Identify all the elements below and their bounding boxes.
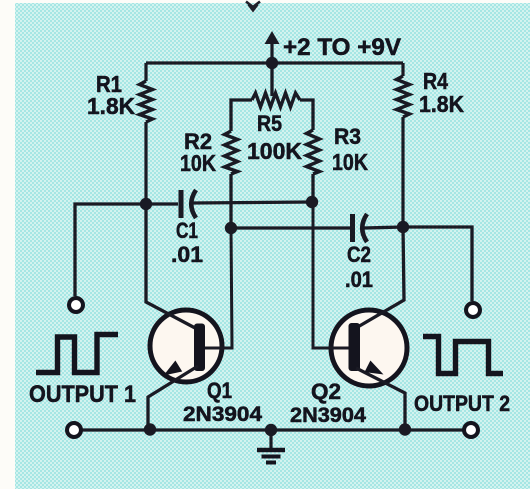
resistor R2 — [225, 131, 238, 174]
wire: R4 top lead — [401, 63, 404, 76]
wire: R5 right lead and corner down — [300, 100, 313, 130]
svg-text:.01: .01 — [171, 242, 203, 267]
resistor R1 — [140, 81, 153, 122]
node: Q2 emitter on rail — [399, 423, 411, 435]
svg-text:+2 TO +9V: +2 TO +9V — [283, 34, 401, 61]
wire: C1 line left with output1 drop — [75, 204, 178, 296]
svg-text:1.8K: 1.8K — [87, 93, 135, 119]
resistor R4 — [397, 76, 410, 117]
svg-text:OUTPUT 1: OUTPUT 1 — [29, 381, 136, 408]
node: power junction — [266, 57, 278, 69]
node: R4/C2/Q2 collector — [397, 221, 409, 233]
svg-text:2N3904: 2N3904 — [183, 403, 262, 426]
svg-text:10K: 10K — [180, 150, 216, 176]
waveform symbol output2 — [423, 337, 503, 374]
svg-text:Q2: Q2 — [311, 379, 341, 404]
wire: bottom rail — [81, 428, 464, 431]
wire: R2 bottom lead — [229, 174, 232, 228]
power arrow — [265, 31, 280, 63]
capacitor C2 — [353, 214, 368, 242]
waveform symbol output1 — [36, 335, 118, 373]
node: R2/C2/Q1 base — [225, 222, 237, 234]
wire: R4 bottom lead — [401, 117, 404, 227]
svg-text:10K: 10K — [332, 149, 368, 175]
terminal: output1 top — [69, 298, 83, 312]
wire: V+ tap to R5 — [270, 63, 273, 96]
svg-text:1.8K: 1.8K — [419, 91, 464, 117]
svg-text:OUTPUT 2: OUTPUT 2 — [414, 391, 510, 416]
node: R3/C1/Q2 base — [306, 196, 318, 208]
node: R1/C1/Q1 collector — [140, 198, 152, 210]
wire: C2 right to R4 node — [364, 227, 403, 228]
resistor R5 — [252, 93, 300, 107]
capacitor C1 — [181, 190, 196, 218]
node: Q1 emitter on rail — [144, 423, 156, 435]
node: ground junction — [265, 424, 277, 436]
wire: V+ rail — [146, 61, 403, 64]
wire: output2 branch — [403, 227, 472, 301]
svg-text:100K: 100K — [247, 138, 302, 164]
wire: R1 bottom lead — [144, 122, 147, 204]
wire: C1 right to R3 node — [193, 202, 312, 203]
wire: R3 bottom lead — [311, 174, 314, 202]
svg-text:C2: C2 — [347, 242, 371, 267]
wire: R5 left lead and corner down — [231, 100, 252, 131]
resistor R3 — [307, 130, 320, 174]
wire: R1 top lead — [144, 63, 147, 81]
transistor Q1 — [146, 204, 232, 429]
svg-text:.01: .01 — [345, 267, 373, 292]
terminal: bottom left — [67, 423, 81, 437]
wire: C2 line left from R2 node — [231, 226, 350, 229]
terminal: output2 top — [466, 303, 480, 317]
transistor Q2 — [313, 202, 407, 429]
svg-text:R5: R5 — [257, 111, 282, 136]
scan artifact chevron — [246, 2, 260, 11]
svg-text:2N3904: 2N3904 — [290, 404, 366, 427]
svg-text:Q1: Q1 — [207, 378, 232, 403]
svg-text:C1: C1 — [176, 218, 198, 243]
terminal: bottom right — [464, 423, 478, 437]
ground — [257, 430, 285, 463]
svg-text:R3: R3 — [334, 124, 361, 149]
